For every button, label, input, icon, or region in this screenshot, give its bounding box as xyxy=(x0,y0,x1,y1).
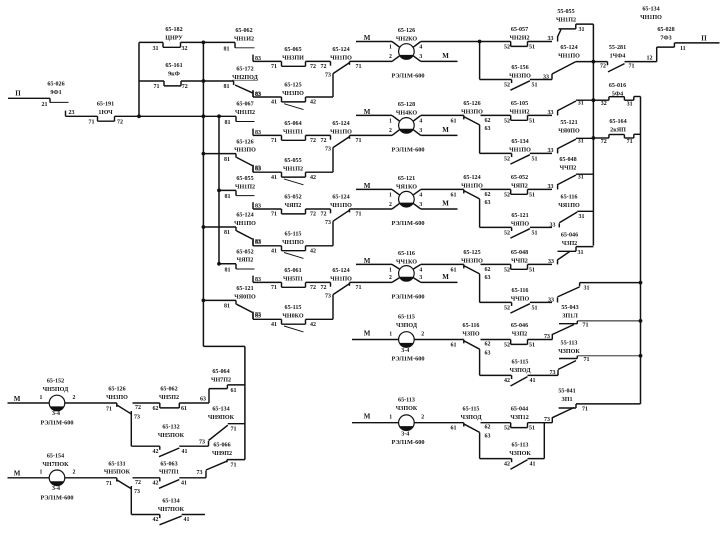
svg-text:65-062: 65-062 xyxy=(160,387,177,393)
svg-text:31: 31 xyxy=(578,100,584,106)
contact 65-161 9кФ pins 71-72 xyxy=(163,81,165,86)
contact 65-061 ЧН5П1 pins 71-72 chain 4 xyxy=(281,282,283,287)
svg-text:65-052: 65-052 xyxy=(236,249,253,255)
wire bl1b rail a xyxy=(131,445,160,447)
svg-text:61: 61 xyxy=(451,426,457,432)
wire bl1 rail b xyxy=(133,402,160,404)
svg-text:73: 73 xyxy=(325,147,331,153)
svg-text:65-182: 65-182 xyxy=(165,27,182,33)
svg-text:71: 71 xyxy=(231,427,237,433)
contact 65-105 ЧН1И2 pins 52-51 chain 2 xyxy=(510,115,512,120)
relay coil 65-152 ЧН5ПОД xyxy=(49,395,65,411)
svg-text:ЧЗП12: ЧЗП12 xyxy=(510,415,529,421)
wire chain2 aux riser xyxy=(332,148,334,173)
svg-text:72: 72 xyxy=(321,64,327,70)
wire rail1 a xyxy=(139,41,163,43)
svg-text:71: 71 xyxy=(356,138,362,144)
svg-text:ЧН3ПО: ЧН3ПО xyxy=(461,259,483,265)
contact 65-134 ЧН7ПОК pins 42-41 bl2b xyxy=(159,515,161,519)
svg-text:41: 41 xyxy=(530,378,536,384)
svg-text:51: 51 xyxy=(529,426,535,432)
wire row y404 stub xyxy=(559,407,576,409)
contact pin 73 exit chain 6 xyxy=(551,417,553,423)
svg-text:31: 31 xyxy=(627,101,633,107)
wire chain6 aux fold riser xyxy=(543,423,545,459)
wire chain4 aux rail start pin 83 xyxy=(252,313,254,320)
relay coil 65-116 ЧЧ1КО chain 4 xyxy=(399,266,415,282)
svg-text:41: 41 xyxy=(271,175,277,181)
svg-text:65-128: 65-128 xyxy=(398,102,415,108)
svg-text:65-046: 65-046 xyxy=(511,323,528,329)
contact pin 33 exit rowB chain1 xyxy=(551,74,553,80)
svg-text:ЧН2КО: ЧН2КО xyxy=(396,36,418,42)
svg-text:ЧН1П2: ЧН1П2 xyxy=(556,17,576,23)
svg-text:1: 1 xyxy=(40,470,43,476)
svg-text:62: 62 xyxy=(485,425,491,431)
svg-text:ЧН2И2: ЧН2И2 xyxy=(509,36,529,42)
wire chain3 upper M feed xyxy=(356,188,392,190)
svg-text:65-132: 65-132 xyxy=(162,425,179,431)
wire bl1 rail c xyxy=(179,402,209,404)
wire stub to П xyxy=(657,46,675,48)
svg-text:71: 71 xyxy=(271,138,277,144)
relay coil 65-128 ЧН4КО chain 2 xyxy=(399,118,415,134)
wire chain3 aux riser xyxy=(332,221,334,246)
wire chain3 upper rail right c xyxy=(528,188,553,190)
wire chain4 lower rail right M xyxy=(421,281,458,283)
svg-text:РЭЛ1М-600: РЭЛ1М-600 xyxy=(391,356,424,363)
contact 65-156 ЧН3ПО pins 52-51 rowB chain1 xyxy=(511,80,513,84)
svg-text:М: М xyxy=(442,273,449,281)
svg-text:73: 73 xyxy=(325,73,331,79)
svg-text:73: 73 xyxy=(325,294,331,300)
svg-text:65-115: 65-115 xyxy=(398,315,415,321)
svg-text:32: 32 xyxy=(601,101,607,107)
svg-text:65-061: 65-061 xyxy=(284,268,301,274)
svg-text:ЧН1ПО: ЧН1ПО xyxy=(558,53,580,59)
svg-text:31: 31 xyxy=(578,139,584,145)
wire chain6 aux a xyxy=(480,458,512,460)
svg-text:52: 52 xyxy=(504,156,510,162)
wire row y404 xyxy=(576,403,641,405)
svg-text:РЭЛ1М-600: РЭЛ1М-600 xyxy=(391,147,424,154)
wire chain2 lower rail mid xyxy=(306,134,331,136)
svg-text:63: 63 xyxy=(485,200,491,206)
svg-text:ЧН7П2: ЧН7П2 xyxy=(211,377,231,383)
svg-text:ЧЧП2: ЧЧП2 xyxy=(560,165,577,171)
svg-text:65-105: 65-105 xyxy=(511,101,528,107)
contact pin 33 exit rowB chain4 xyxy=(557,297,559,302)
wire bl1 rail left xyxy=(8,402,50,404)
svg-text:71: 71 xyxy=(89,120,95,126)
svg-text:ЧЧ1КО: ЧЧ1КО xyxy=(396,259,417,265)
wire bl2b riser xyxy=(130,486,132,515)
contact 65-048 ЧЧП2 pins 52-51 chain 4 xyxy=(510,264,512,269)
wire rail y116 left xyxy=(66,115,98,117)
svg-text:71: 71 xyxy=(106,406,112,412)
svg-text:ЧН5ПОД: ЧН5ПОД xyxy=(43,387,69,393)
wire chain1 aux riser xyxy=(332,74,334,97)
svg-text:П: П xyxy=(701,34,707,42)
svg-text:65-124: 65-124 xyxy=(332,121,349,127)
svg-text:ЧН1И2: ЧН1И2 xyxy=(234,36,254,42)
svg-text:4: 4 xyxy=(419,193,422,199)
contact 65-052 ЧЯП2 pin 81 open tee chain 4 xyxy=(219,263,236,265)
contact 65-124 ЧН1ПО transfer 61-62/63 chain 3 xyxy=(463,189,465,193)
svg-text:61: 61 xyxy=(451,342,457,348)
contact 65-124 ЧН1ПО transfer 72/73-71 chain 3 xyxy=(330,209,332,213)
contact 65-115 ЧН0КО pins 41-42 chain 4 aux xyxy=(281,319,283,324)
contact 65-125 ЧН3ПО pins 41-42 chain 1 aux xyxy=(281,97,283,102)
svg-text:РЭЛ1М-600: РЭЛ1М-600 xyxy=(391,439,424,446)
wire chain6 rail b xyxy=(481,422,511,424)
svg-text:71: 71 xyxy=(584,357,590,363)
wire chain5 aux b xyxy=(528,374,559,376)
svg-text:72: 72 xyxy=(600,63,606,69)
svg-text:52: 52 xyxy=(504,426,510,432)
wire row y61.6 xyxy=(576,61,608,63)
svg-text:1: 1 xyxy=(389,45,392,51)
wire chain1 upper rail right c xyxy=(528,41,553,43)
svg-text:ЧН9ПОК: ЧН9ПОК xyxy=(208,415,235,421)
wire chain4 aux riser xyxy=(332,295,334,320)
svg-text:3-4: 3-4 xyxy=(52,486,60,492)
svg-text:33: 33 xyxy=(548,148,554,154)
svg-text:3-4: 3-4 xyxy=(401,431,409,437)
wire chain1 aux rail start pin 83 xyxy=(252,90,254,97)
svg-text:65-067: 65-067 xyxy=(236,102,253,108)
svg-text:9кФ: 9кФ xyxy=(168,71,180,77)
svg-text:52: 52 xyxy=(504,83,510,89)
svg-text:ЧН3ПО: ЧН3ПО xyxy=(234,148,256,154)
wire chain2 lower rail right M xyxy=(421,134,458,136)
wire chain4 upper M feed xyxy=(356,263,392,265)
contact pin 33-31 exit chain 2 xyxy=(557,110,559,115)
svg-text:65-057: 65-057 xyxy=(511,27,528,33)
svg-text:65-131: 65-131 xyxy=(108,461,125,467)
svg-text:65-126: 65-126 xyxy=(463,101,480,107)
contact 65-062 ЧН1И2 pin 81 open xyxy=(234,42,236,47)
svg-text:2: 2 xyxy=(389,275,392,281)
svg-text:51: 51 xyxy=(529,45,535,51)
wire chain3 63 drop xyxy=(479,199,481,228)
bus 3b vertical xyxy=(244,346,246,459)
contact pin 73 exit chain 5 xyxy=(551,334,553,340)
svg-text:ЧН3ПО: ЧН3ПО xyxy=(282,240,304,246)
svg-text:63: 63 xyxy=(485,351,491,357)
svg-text:51: 51 xyxy=(532,230,538,236)
wire rail y116 right xyxy=(115,115,237,117)
svg-text:31: 31 xyxy=(579,27,585,33)
wire chain2 aux rail end xyxy=(306,171,334,173)
contact 65-125 ЧН3ПО transfer 61-62/63 chain 4 xyxy=(463,264,465,268)
svg-text:65-064: 65-064 xyxy=(284,121,301,127)
wire chain1 lower rail right M xyxy=(421,60,458,62)
contact 65-063 ЧН7П1 xyxy=(159,478,161,482)
svg-text:ЧЗПОК: ЧЗПОК xyxy=(396,406,418,412)
contact 65-134 ЧН1ПО pins 52-51 rowB chain2 xyxy=(511,153,513,157)
svg-text:81: 81 xyxy=(224,84,230,90)
svg-text:65-066: 65-066 xyxy=(213,443,230,449)
wire chain2 aux rail start pin 83 xyxy=(252,165,254,172)
contact pin 33-31 exit rowB chain2 xyxy=(557,148,559,153)
svg-text:21: 21 xyxy=(42,102,48,108)
svg-text:52: 52 xyxy=(504,45,510,51)
svg-text:51: 51 xyxy=(529,342,535,348)
svg-text:ЧЗПОД: ЧЗПОД xyxy=(396,323,418,329)
bus 4 vertical xyxy=(592,24,594,246)
svg-text:ЧЯПО: ЧЯПО xyxy=(511,222,530,228)
svg-text:ЧН1ПО: ЧН1ПО xyxy=(461,184,483,190)
svg-text:62: 62 xyxy=(153,406,159,412)
svg-text:65-028: 65-028 xyxy=(657,27,674,33)
svg-text:72: 72 xyxy=(321,138,327,144)
svg-text:55-055: 55-055 xyxy=(557,9,574,15)
svg-text:65-121: 65-121 xyxy=(511,213,528,219)
svg-text:52: 52 xyxy=(504,267,510,273)
svg-text:63: 63 xyxy=(485,275,491,281)
svg-text:71: 71 xyxy=(627,139,633,145)
svg-text:81: 81 xyxy=(225,267,231,273)
svg-text:РЭЛ1М-600: РЭЛ1М-600 xyxy=(40,420,73,427)
svg-text:71: 71 xyxy=(583,322,589,328)
svg-text:РЭЛ1М-600: РЭЛ1М-600 xyxy=(40,494,73,501)
svg-text:33: 33 xyxy=(548,36,554,42)
svg-text:73: 73 xyxy=(197,470,203,476)
svg-text:ЧН5ПОК: ЧН5ПОК xyxy=(158,433,185,439)
svg-text:81: 81 xyxy=(225,120,231,126)
svg-text:65-052: 65-052 xyxy=(284,195,301,201)
svg-text:81: 81 xyxy=(224,230,230,236)
svg-text:65-113: 65-113 xyxy=(398,398,415,404)
wire chain2 rowB rail b xyxy=(530,152,552,154)
svg-text:65-062: 65-062 xyxy=(235,28,252,34)
svg-text:55-041: 55-041 xyxy=(558,389,575,395)
svg-text:ЧН9П2: ЧН9П2 xyxy=(212,451,232,457)
svg-text:72: 72 xyxy=(135,480,141,486)
svg-text:1: 1 xyxy=(389,119,392,125)
svg-text:65-115: 65-115 xyxy=(463,406,480,412)
contact 65-055 ЧН1П2 pin 81 open tee chain 3 xyxy=(219,189,236,191)
contact 65-124 ЧН1ПО pins 81-83 tee chain 3 xyxy=(203,226,236,228)
contact 65-124 ЧН1ПО transfer 72/73-71 chain 4 xyxy=(330,282,332,286)
svg-text:65-124: 65-124 xyxy=(332,195,349,201)
wire chain1 lower rail to coil xyxy=(350,60,393,62)
bus 6 vertical xyxy=(640,97,642,404)
svg-text:4: 4 xyxy=(419,268,422,274)
svg-text:32: 32 xyxy=(182,46,188,52)
svg-text:3: 3 xyxy=(419,275,422,281)
svg-text:М: М xyxy=(14,470,21,478)
svg-text:1: 1 xyxy=(40,395,43,401)
node pin 23 xyxy=(65,111,67,117)
svg-text:52: 52 xyxy=(504,230,510,236)
svg-text:61: 61 xyxy=(451,118,457,124)
svg-text:42: 42 xyxy=(153,449,159,455)
contact 65-064 ЧН1П1 pins 71-72 chain 2 xyxy=(281,135,283,140)
svg-text:51: 51 xyxy=(532,305,538,311)
svg-text:ЦНРУ: ЦНРУ xyxy=(165,35,183,41)
svg-text:31: 31 xyxy=(153,46,159,52)
svg-text:72: 72 xyxy=(601,139,607,145)
contact 65-062 ЧН5П2 xyxy=(159,403,161,408)
svg-text:1ЧФ4: 1ЧФ4 xyxy=(610,53,626,59)
svg-text:65-124: 65-124 xyxy=(560,45,577,51)
svg-text:3-4: 3-4 xyxy=(401,348,409,354)
wire chain3 aux rail end xyxy=(306,245,334,247)
svg-text:65-125: 65-125 xyxy=(463,250,480,256)
wire bl2 rail c xyxy=(179,477,206,479)
contact 65-026 9Ф1 pin 21 (open) xyxy=(49,98,51,102)
svg-text:65-126: 65-126 xyxy=(236,139,253,145)
wire chain3 lower rail mid xyxy=(306,208,331,210)
svg-text:ЧЯ0ПО: ЧЯ0ПО xyxy=(558,128,580,134)
wire П exit top right xyxy=(674,42,719,44)
svg-text:65-055: 65-055 xyxy=(284,158,301,164)
svg-text:42: 42 xyxy=(153,480,159,486)
contact 65-164 2кЯП pins 72-71 bus row xyxy=(593,137,609,139)
wire chain5 63 drop xyxy=(479,349,481,375)
wire row y321 xyxy=(577,320,640,322)
svg-text:65-115: 65-115 xyxy=(512,360,529,366)
svg-text:65-046: 65-046 xyxy=(561,233,578,239)
wire chain4 upper rail right b xyxy=(481,263,511,265)
contact 65-126 ЧН3ПО pins 81-83 tee chain 2 xyxy=(203,153,236,155)
svg-text:65-044: 65-044 xyxy=(511,406,528,412)
wire chain6 63 drop xyxy=(479,432,481,458)
svg-text:31: 31 xyxy=(578,174,584,180)
svg-text:5Ф4: 5Ф4 xyxy=(612,91,623,97)
wire bl2b rail a xyxy=(131,514,160,516)
svg-text:2: 2 xyxy=(73,470,76,476)
svg-text:65-134: 65-134 xyxy=(162,499,179,505)
wire chain3 lower rail start pin 83 xyxy=(252,202,254,209)
svg-text:52: 52 xyxy=(504,305,510,311)
wire chain2 upper rail right b xyxy=(481,114,511,116)
svg-text:41: 41 xyxy=(530,461,536,467)
wire chain3 rowB rail a xyxy=(480,226,512,228)
wire chain5 rail left xyxy=(352,339,399,341)
svg-text:М: М xyxy=(442,126,449,134)
svg-text:71: 71 xyxy=(154,84,160,90)
svg-text:ЧЧП2: ЧЧП2 xyxy=(511,259,528,265)
svg-text:ЧН7ПОК: ЧН7ПОК xyxy=(42,462,69,468)
wire chain4 lower rail to coil xyxy=(350,281,393,283)
contact 65-126 ЧН3ПО transfer 61-62/63 chain 2 xyxy=(463,115,465,119)
svg-text:65-115: 65-115 xyxy=(285,232,302,238)
svg-text:31: 31 xyxy=(578,250,584,256)
svg-text:71: 71 xyxy=(271,285,277,291)
svg-text:65-048: 65-048 xyxy=(559,157,576,163)
svg-text:РЭЛ1М-600: РЭЛ1М-600 xyxy=(391,220,424,227)
svg-text:ЧЗПОД: ЧЗПОД xyxy=(509,368,531,374)
contact 65-113 ЧЗПОК pins 42-41 chain 6 aux xyxy=(511,459,513,463)
junction dots rail y116 xyxy=(137,114,141,118)
wire row y459.6 stub xyxy=(227,459,245,461)
contact 65-115 ЧЗПОД transfer 61-62/63 chain 6 xyxy=(463,423,465,427)
svg-text:ЧН2ПОД: ЧН2ПОД xyxy=(232,75,258,81)
svg-text:ЧН5П2: ЧН5П2 xyxy=(159,395,179,401)
svg-text:61: 61 xyxy=(451,192,457,198)
svg-text:65-161: 65-161 xyxy=(165,63,182,69)
wire row y356 xyxy=(577,355,640,357)
contact 65-115 ЧН3ПО pins 41-42 chain 3 aux xyxy=(281,246,283,251)
svg-text:65-124: 65-124 xyxy=(463,175,480,181)
svg-text:72: 72 xyxy=(135,405,141,411)
wire bl1b riser xyxy=(130,411,132,446)
svg-text:ЧЗПОК: ЧЗПОК xyxy=(558,349,580,355)
contact 65-131 ЧН5ПОК transfer 71-72/73 xyxy=(116,478,118,482)
svg-text:65-191: 65-191 xyxy=(97,102,114,108)
svg-text:65-026: 65-026 xyxy=(47,82,64,88)
svg-text:ЧН7ПОК: ЧН7ПОК xyxy=(158,507,185,513)
relay coil 65-126 ЧН2КО chain 1 xyxy=(399,44,415,60)
svg-text:ЧН1ПО: ЧН1ПО xyxy=(234,221,256,227)
svg-text:71: 71 xyxy=(356,64,362,70)
svg-text:ЧЯП2: ЧЯП2 xyxy=(285,203,302,209)
svg-text:М: М xyxy=(442,52,449,60)
svg-text:41: 41 xyxy=(271,322,277,328)
svg-text:73: 73 xyxy=(544,334,550,340)
wire chain1 upper M feed xyxy=(356,41,392,43)
contact 65-116 ЧЧПО pins 52-51 rowB chain4 xyxy=(511,302,513,306)
svg-text:71: 71 xyxy=(106,481,112,487)
svg-text:3: 3 xyxy=(419,202,422,208)
svg-text:ЧН1П2: ЧН1П2 xyxy=(235,184,255,190)
svg-text:63: 63 xyxy=(485,434,491,440)
svg-text:ЧЯ1ПО: ЧЯ1ПО xyxy=(558,203,580,209)
wire chain6 rail mid xyxy=(414,422,464,424)
wire bl1 rail a xyxy=(65,402,117,404)
svg-text:3-4: 3-4 xyxy=(52,411,60,417)
svg-text:65-134: 65-134 xyxy=(511,139,528,145)
contact 65-191 1ЮЧ pins 71-72 xyxy=(97,116,99,121)
svg-text:65-048: 65-048 xyxy=(511,250,528,256)
svg-text:РЭЛ1М-600: РЭЛ1М-600 xyxy=(391,294,424,301)
wire chain4 rowB rail b xyxy=(530,301,552,303)
svg-text:51: 51 xyxy=(529,192,535,198)
wire chain5 aux a xyxy=(480,374,512,376)
svg-text:71: 71 xyxy=(271,212,277,218)
svg-text:31: 31 xyxy=(579,214,585,220)
svg-text:55-121: 55-121 xyxy=(560,120,577,126)
wire bl2 rail a xyxy=(65,477,117,479)
wire chain2 lower rail to coil xyxy=(350,134,393,136)
wire chain6 rail c xyxy=(528,422,553,424)
svg-text:31: 31 xyxy=(584,285,590,291)
svg-text:65-063: 65-063 xyxy=(160,461,177,467)
svg-text:71: 71 xyxy=(629,63,635,69)
svg-text:41: 41 xyxy=(181,480,187,486)
contact pin 33-31 exit chain 3 xyxy=(557,184,559,189)
svg-text:72: 72 xyxy=(321,212,327,218)
svg-text:73: 73 xyxy=(550,370,556,376)
svg-text:65-116: 65-116 xyxy=(398,251,415,257)
wire chain2 upper rail right a xyxy=(421,114,464,116)
wire chain3 rowB rail b xyxy=(530,226,552,228)
contact 65-124 ЧН1ПО transfer 72/73-71 chain 2 xyxy=(330,135,332,139)
contact 65-124 ЧН1ПО transfer 72/73-71 chain 1 xyxy=(330,61,332,65)
svg-text:РЭЛ1М-600: РЭЛ1М-600 xyxy=(391,73,424,80)
svg-text:ЧН5ПОК: ЧН5ПОК xyxy=(104,470,131,476)
wire chain2 rowB rail a xyxy=(480,152,512,154)
svg-text:81: 81 xyxy=(225,194,231,200)
wire bl2 rail left xyxy=(8,477,50,479)
svg-text:65-164: 65-164 xyxy=(609,119,626,125)
svg-text:81: 81 xyxy=(224,157,230,163)
svg-text:ЧН1И2: ЧН1И2 xyxy=(509,110,529,116)
svg-text:55-281: 55-281 xyxy=(609,45,626,51)
